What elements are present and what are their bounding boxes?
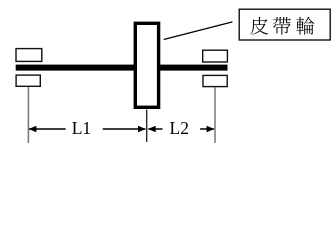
bearing block top-right bbox=[203, 50, 228, 62]
shaft bbox=[16, 65, 228, 71]
leader line bbox=[164, 22, 233, 40]
svg-text:L2: L2 bbox=[170, 118, 189, 138]
svg-text:L1: L1 bbox=[72, 118, 91, 138]
label box bbox=[239, 9, 330, 40]
label text 輪 bbox=[296, 17, 314, 35]
extension line right bbox=[214, 88, 216, 144]
arrowhead L2 right bbox=[207, 126, 215, 132]
label text 帶 bbox=[273, 17, 291, 35]
dimension line L1 right segment bbox=[103, 128, 146, 130]
label text 皮 bbox=[250, 17, 268, 35]
dimension line L2 right segment bbox=[200, 128, 214, 130]
dimension line L1 left segment bbox=[29, 128, 66, 130]
extension line center (pulley centerline) bbox=[146, 110, 148, 143]
extension line left bbox=[27, 87, 29, 143]
arrowhead L1 right bbox=[138, 126, 146, 132]
bearing block top-left bbox=[16, 49, 42, 62]
pulley bbox=[135, 23, 158, 107]
bearing block bottom-right bbox=[203, 75, 227, 86]
dimension line L2 left segment bbox=[148, 128, 162, 130]
arrowhead L1 left bbox=[29, 126, 37, 132]
arrowhead L2 left bbox=[148, 126, 156, 132]
bearing block bottom-left bbox=[16, 75, 40, 86]
